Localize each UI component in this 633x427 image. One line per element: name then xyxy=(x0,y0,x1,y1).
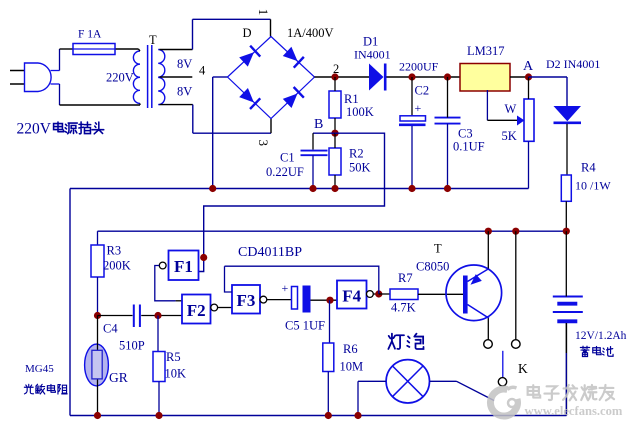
svg-text:C3: C3 xyxy=(458,127,473,141)
svg-text:R1: R1 xyxy=(344,92,359,106)
svg-text:B: B xyxy=(314,117,323,132)
svg-text:0.22UF: 0.22UF xyxy=(266,165,304,179)
svg-text:F3: F3 xyxy=(237,291,256,310)
svg-text:200K: 200K xyxy=(103,259,131,273)
svg-text:3: 3 xyxy=(256,140,271,147)
svg-text:C1: C1 xyxy=(280,151,295,165)
svg-text:www.elecfans.com: www.elecfans.com xyxy=(525,404,623,418)
svg-text:220V: 220V xyxy=(106,71,134,85)
svg-text:5K: 5K xyxy=(502,129,517,143)
svg-text:T: T xyxy=(434,242,442,256)
svg-text:F2: F2 xyxy=(187,301,206,320)
svg-text:D1: D1 xyxy=(363,35,378,49)
svg-text:D: D xyxy=(243,26,252,40)
svg-text:F1: F1 xyxy=(174,257,193,276)
svg-text:C4: C4 xyxy=(103,322,118,336)
svg-text:K: K xyxy=(518,361,528,376)
svg-text:C5 1UF: C5 1UF xyxy=(285,319,325,333)
svg-text:CD4011BP: CD4011BP xyxy=(238,245,302,260)
svg-text:+: + xyxy=(415,101,422,115)
svg-text:8V: 8V xyxy=(177,85,192,99)
svg-text:T: T xyxy=(149,33,157,47)
svg-text:4.7K: 4.7K xyxy=(391,301,416,315)
svg-text:F 1A: F 1A xyxy=(78,29,102,41)
svg-text:8V: 8V xyxy=(177,57,192,71)
svg-text:+: + xyxy=(282,281,289,295)
svg-text:10K: 10K xyxy=(165,367,187,381)
svg-text:D2 IN4001: D2 IN4001 xyxy=(546,57,600,71)
svg-text:1: 1 xyxy=(256,9,271,16)
svg-text:IN4001: IN4001 xyxy=(354,48,391,62)
svg-text:R6: R6 xyxy=(343,342,358,356)
svg-text:510P: 510P xyxy=(119,339,145,353)
svg-text:A: A xyxy=(523,59,534,74)
svg-text:50K: 50K xyxy=(349,161,371,175)
svg-text:4: 4 xyxy=(199,64,206,78)
svg-text:10M: 10M xyxy=(340,360,364,374)
svg-text:R7: R7 xyxy=(398,271,413,285)
svg-text:1A/400V: 1A/400V xyxy=(287,26,334,40)
svg-text:R4: R4 xyxy=(581,161,596,175)
svg-text:GR: GR xyxy=(109,370,128,385)
svg-text:R5: R5 xyxy=(166,350,181,364)
svg-text:0.1UF: 0.1UF xyxy=(453,140,485,154)
svg-text:220V: 220V xyxy=(17,121,52,138)
svg-text:2200UF: 2200UF xyxy=(399,60,439,74)
svg-text:LM317: LM317 xyxy=(467,44,505,58)
svg-text:R3: R3 xyxy=(107,244,122,258)
svg-text:12V/1.2Ah: 12V/1.2Ah xyxy=(575,330,627,342)
svg-text:100K: 100K xyxy=(346,105,374,119)
svg-text:W: W xyxy=(505,102,517,116)
svg-text:10 /1W: 10 /1W xyxy=(575,179,611,193)
svg-text:C8050: C8050 xyxy=(416,260,449,274)
svg-text:F4: F4 xyxy=(342,287,361,306)
svg-text:C2: C2 xyxy=(415,84,430,98)
svg-text:R2: R2 xyxy=(349,147,364,161)
svg-text:MG45: MG45 xyxy=(25,363,54,375)
